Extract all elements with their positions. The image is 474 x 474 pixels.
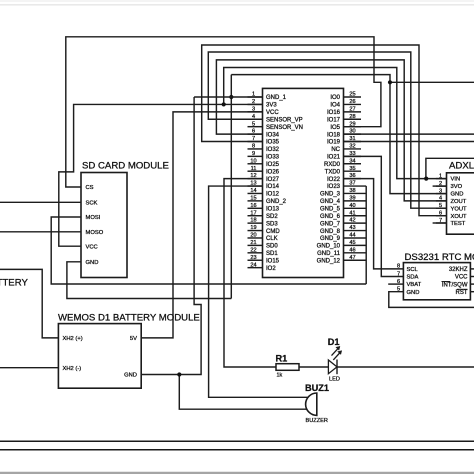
svg-text:CMD: CMD: [266, 229, 280, 235]
svg-text:MOSI: MOSI: [86, 215, 101, 221]
wire: [224, 68, 447, 179]
svg-text:27: 27: [349, 106, 355, 112]
wire: [0, 440, 474, 442]
svg-text:GND_8: GND_8: [320, 229, 341, 235]
svg-text:44: 44: [349, 233, 355, 239]
wire: [0, 231, 81, 233]
svg-text:WEMOS D1 BATTERY MODULE: WEMOS D1 BATTERY MODULE: [58, 313, 200, 324]
svg-text:IO34: IO34: [266, 132, 280, 138]
svg-text:23: 23: [250, 255, 256, 261]
svg-text:GND_7: GND_7: [320, 221, 341, 227]
svg-text:INT/SQW: INT/SQW: [442, 282, 468, 288]
wire: [365, 186, 367, 284]
svg-text:41: 41: [349, 210, 355, 216]
node 3V3 junction: [222, 102, 226, 106]
svg-text:XH2 (+): XH2 (+): [63, 336, 83, 342]
svg-text:45: 45: [349, 240, 355, 246]
svg-text:MOSO: MOSO: [86, 230, 104, 236]
svg-text:R1: R1: [276, 353, 288, 363]
wire: [344, 179, 404, 269]
wire: [344, 156, 404, 276]
svg-text:35: 35: [349, 166, 355, 172]
svg-text:10: 10: [250, 158, 256, 164]
wire: [230, 75, 232, 299]
svg-text:SD2: SD2: [266, 214, 278, 220]
svg-text:IO13: IO13: [266, 207, 280, 213]
svg-text:D1: D1: [328, 337, 340, 347]
node battery GND junction: [177, 372, 181, 376]
svg-text:38: 38: [349, 188, 355, 194]
wire: [179, 375, 307, 410]
svg-text:NC: NC: [331, 147, 340, 153]
svg-text:18: 18: [250, 218, 256, 224]
svg-text:3V3: 3V3: [266, 103, 277, 109]
svg-text:42: 42: [349, 218, 355, 224]
svg-text:3VO: 3VO: [451, 184, 463, 190]
svg-text:VCC: VCC: [266, 110, 279, 116]
svg-text:IO23: IO23: [327, 184, 341, 190]
svg-text:GND_11: GND_11: [317, 251, 341, 257]
svg-text:11: 11: [251, 166, 257, 172]
wire: [388, 283, 403, 285]
svg-text:VCC: VCC: [86, 244, 98, 250]
svg-text:39: 39: [349, 195, 355, 201]
IC ESP32 module: [263, 88, 344, 277]
svg-text:CLK: CLK: [266, 236, 278, 242]
svg-text:IO33: IO33: [266, 155, 280, 161]
wire: [67, 262, 231, 299]
svg-text:CS: CS: [86, 185, 94, 191]
svg-text:GND_10: GND_10: [317, 244, 341, 250]
svg-text:47: 47: [349, 255, 355, 261]
wire: [433, 222, 447, 224]
svg-text:5: 5: [252, 121, 255, 127]
svg-text:GND_6: GND_6: [320, 214, 341, 220]
svg-text:19: 19: [250, 225, 256, 231]
svg-text:26: 26: [349, 99, 355, 105]
svg-text:XOUT: XOUT: [451, 214, 468, 220]
svg-text:GND_4: GND_4: [320, 199, 341, 205]
svg-text:BATTERY: BATTERY: [0, 277, 28, 288]
wire: [299, 366, 328, 368]
wire: [51, 217, 366, 284]
svg-text:IO32: IO32: [266, 147, 280, 153]
svg-text:GND: GND: [124, 373, 137, 379]
svg-text:43: 43: [349, 225, 355, 231]
svg-text:9: 9: [252, 151, 255, 157]
svg-text:IO18: IO18: [327, 132, 341, 138]
wire: [344, 133, 474, 135]
svg-text:SD3: SD3: [266, 221, 278, 227]
wire: [208, 52, 446, 208]
svg-text:ADXL: ADXL: [449, 160, 474, 171]
wire: [426, 158, 474, 178]
svg-text:32KHZ: 32KHZ: [449, 267, 468, 273]
svg-text:IO35: IO35: [266, 140, 280, 146]
svg-text:16: 16: [250, 203, 256, 209]
svg-text:TXD0: TXD0: [325, 169, 341, 175]
svg-text:IO22: IO22: [327, 177, 341, 183]
svg-text:VCC: VCC: [455, 275, 468, 281]
svg-text:LED: LED: [329, 376, 340, 382]
svg-text:20: 20: [250, 233, 256, 239]
svg-text:GND_1: GND_1: [266, 95, 287, 101]
wire: [59, 104, 263, 246]
svg-text:GND: GND: [86, 260, 99, 266]
svg-text:ZOUT: ZOUT: [451, 199, 467, 205]
wire: [390, 81, 474, 83]
svg-text:SD0: SD0: [266, 244, 278, 250]
wire: [0, 367, 58, 369]
svg-text:GND_5: GND_5: [320, 207, 341, 213]
node VIN junction: [424, 177, 428, 181]
svg-text:GND: GND: [407, 290, 420, 296]
svg-text:BUZZER: BUZZER: [306, 418, 328, 424]
svg-text:14: 14: [250, 188, 256, 194]
svg-text:SCK: SCK: [86, 200, 98, 206]
svg-text:SENSOR_VP: SENSOR_VP: [266, 117, 303, 123]
svg-text:IO25: IO25: [266, 162, 280, 168]
svg-text:5V: 5V: [130, 336, 137, 342]
node GND junction right: [388, 80, 392, 84]
svg-text:GND: GND: [451, 192, 464, 198]
wire: [0, 0, 474, 2]
wire: [344, 141, 474, 143]
svg-text:SDA: SDA: [407, 275, 419, 281]
svg-text:TEST: TEST: [451, 221, 466, 227]
svg-text:IO16: IO16: [327, 110, 341, 116]
svg-text:IO14: IO14: [266, 184, 280, 190]
wire: [194, 96, 262, 98]
svg-text:IO2: IO2: [266, 266, 276, 272]
wire: [141, 97, 201, 375]
svg-text:VIN: VIN: [451, 177, 461, 183]
svg-text:SD1: SD1: [266, 251, 278, 257]
wire: [389, 292, 474, 308]
svg-text:IO15: IO15: [266, 258, 280, 264]
svg-text:37: 37: [349, 181, 355, 187]
svg-text:SENSOR_VN: SENSOR_VN: [266, 125, 303, 131]
svg-text:GND_12: GND_12: [317, 258, 341, 264]
wire: [202, 45, 447, 216]
svg-text:RXD0: RXD0: [324, 162, 341, 168]
wire: [0, 269, 58, 338]
svg-text:IO5: IO5: [330, 125, 340, 131]
svg-text:8: 8: [252, 144, 255, 150]
svg-text:RST: RST: [456, 290, 468, 296]
wire: [433, 185, 447, 187]
wire: [224, 179, 276, 367]
svg-text:GND_2: GND_2: [266, 199, 287, 205]
wire: [0, 472, 474, 474]
svg-text:22: 22: [250, 247, 256, 253]
svg-text:IO0: IO0: [330, 95, 340, 101]
svg-text:GND_9: GND_9: [320, 236, 341, 242]
svg-text:IO12: IO12: [266, 192, 280, 198]
svg-text:IO26: IO26: [266, 169, 280, 175]
svg-text:DS3231 RTC MO: DS3231 RTC MO: [405, 252, 474, 263]
wire: [0, 449, 474, 451]
wire: [0, 201, 81, 203]
svg-text:IO17: IO17: [327, 117, 341, 123]
svg-text:46: 46: [349, 247, 355, 253]
svg-text:IO27: IO27: [266, 177, 280, 183]
svg-text:25: 25: [349, 92, 355, 98]
svg-text:YOUT: YOUT: [451, 206, 468, 212]
wire: [216, 60, 446, 201]
wire: [337, 366, 474, 368]
svg-text:40: 40: [349, 203, 355, 209]
node GND_1 junction: [229, 95, 233, 99]
svg-text:IO19: IO19: [327, 140, 341, 146]
svg-text:IO4: IO4: [330, 103, 340, 109]
svg-text:SCL: SCL: [407, 267, 419, 273]
wire: [0, 4, 474, 6]
svg-text:24: 24: [250, 262, 256, 268]
wire: [231, 75, 446, 194]
svg-text:28: 28: [349, 114, 355, 120]
svg-text:BUZ1: BUZ1: [305, 383, 329, 393]
svg-text:32: 32: [349, 144, 355, 150]
svg-text:VBAT: VBAT: [407, 282, 422, 288]
svg-text:IO21: IO21: [327, 155, 341, 161]
wire: [66, 37, 381, 187]
svg-text:SD CARD MODULE: SD CARD MODULE: [82, 161, 169, 172]
svg-text:GND_3: GND_3: [320, 192, 341, 198]
wire: [141, 112, 262, 338]
svg-text:XH2 (-): XH2 (-): [63, 366, 82, 372]
wire: [209, 186, 308, 397]
svg-text:1k: 1k: [277, 373, 283, 379]
svg-text:17: 17: [250, 210, 256, 216]
svg-text:15: 15: [250, 195, 256, 201]
svg-text:34: 34: [349, 158, 355, 164]
svg-text:21: 21: [250, 240, 256, 246]
